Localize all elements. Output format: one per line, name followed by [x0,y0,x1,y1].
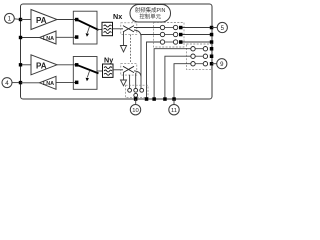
svg-text:1: 1 [8,16,12,23]
switch S1 lever [77,20,99,30]
control unit U1 [130,5,171,23]
svg-text:Ny: Ny [104,56,113,65]
switch S2 box [73,57,97,90]
wire LNA1 in [56,36,77,38]
svg-text:LNA: LNA [43,81,54,87]
control line S3 to S4 [130,35,132,64]
switch S4 transfer [123,66,134,72]
switch S4 control box [121,64,137,76]
wire J2 row2 left [165,56,191,99]
port P1 [4,13,14,23]
control line U1 to S3 [132,20,134,23]
wire Nx to S3 [113,28,124,30]
arrow port down A1 [120,46,126,53]
amplifier PA2 [31,55,57,75]
connector J3 box [126,85,149,97]
port P11 [169,105,179,115]
wire S3 to J1 row1 [134,27,160,29]
wire S4 stub down1 [129,75,131,89]
wire to J1 row2 [141,34,160,36]
node junction PA2 [19,63,22,66]
node junction P2 [19,81,22,84]
wire LNA2 in [56,82,77,84]
wire J2 row3 left [174,64,191,99]
wire PA2 out [57,64,77,66]
node junction LNA1 [19,36,22,39]
svg-text:射频集成PIN: 射频集成PIN [135,6,166,14]
switch S2 pole a [75,63,79,67]
switch S2 lever [77,65,99,74]
connector J1 box [154,23,185,48]
wire Ny to S4 [113,69,123,71]
switch S2 pole b [75,81,79,85]
amplifier PA1 [31,10,57,30]
wire S2 to Ny [97,70,103,72]
wire bus vertical [140,35,142,88]
module outline [21,4,213,99]
connector J2 row2 [191,54,195,58]
svg-text:11: 11 [171,108,177,114]
connector J2 row1 [191,47,195,51]
svg-text:LNA: LNA [43,36,54,42]
wire to port P11 [173,99,175,105]
node junction J3 [134,97,138,101]
arrow port down A2 [121,80,127,86]
wire J1 row2 to border [183,34,212,36]
wire S4 stub down2 [135,73,137,89]
switch S3 transfer [123,26,134,32]
wire J1 row1 link [165,27,174,29]
wire P2 to border [12,82,21,84]
wire S4 arc down [134,71,141,77]
wire LNA1 out [21,37,40,39]
node junction P1 [19,18,22,21]
wire S3 down [123,32,125,46]
svg-text:9: 9 [220,62,224,68]
connector J2 row3 [191,62,195,66]
connector J2 box [187,44,212,70]
node junctions bottom border [145,97,149,101]
wire J2 row links [195,48,203,50]
connector J1 row1 [160,25,164,29]
svg-text:PA: PA [36,16,47,25]
wire S4 down [123,73,125,80]
amplifier LNA2 [40,76,57,89]
port P5 [212,27,217,29]
switch S1 box [73,11,97,44]
svg-text:控制单元: 控制单元 [139,13,161,21]
svg-text:4: 4 [5,80,9,87]
wire PA1 out [57,19,77,21]
wire S3 arc down [134,30,141,36]
switch S2 arrow [87,71,89,78]
port P2 [2,78,12,88]
wire to port P10 [135,99,137,105]
svg-text:5: 5 [221,26,225,32]
port P10 [130,105,140,115]
wire P1 to border [14,18,20,21]
svg-text:Nx: Nx [113,12,122,21]
connector J1 row3 [160,40,164,44]
wire PA2 input [21,64,32,66]
wire J1 row3 to border [183,41,212,43]
connector J3 pins [128,88,132,92]
wire J3 to border [135,97,137,99]
connector J1 row2 [160,32,164,36]
wire S1 to Nx [97,29,102,31]
wire J2 row1 left [154,49,191,99]
wire LNA2 out [21,82,40,84]
switch S3 control box [121,23,137,35]
port P9 [212,63,217,65]
amplifier LNA1 [40,31,57,44]
switch S1 pole a [75,18,79,22]
wire J1 row3 left [147,42,161,99]
filter Nx [102,22,113,35]
svg-text:PA: PA [36,62,47,71]
switch S1 arrow [87,27,89,34]
wire PA1 input [21,19,32,21]
wire J1 row1 to border [183,27,212,29]
svg-text:10: 10 [132,108,138,114]
switch S1 pole b [75,35,79,39]
filter Ny [103,64,114,77]
